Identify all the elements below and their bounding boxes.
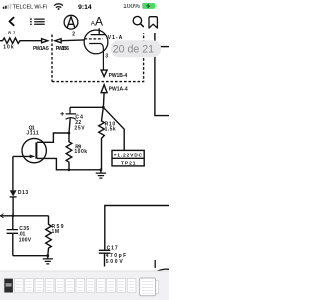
- svg-text:+1.22VDC: +1.22VDC: [114, 153, 143, 159]
- svg-text:25V: 25V: [74, 126, 85, 132]
- svg-text:20 de 21: 20 de 21: [113, 44, 154, 56]
- svg-text:500V: 500V: [106, 259, 124, 265]
- svg-text:10k: 10k: [3, 44, 14, 50]
- svg-text:PW1A-4: PW1A-4: [109, 86, 128, 92]
- svg-text:V1-A: V1-A: [108, 35, 123, 41]
- svg-text:A: A: [95, 14, 103, 28]
- svg-text:100V: 100V: [19, 238, 32, 244]
- svg-text:TP21: TP21: [121, 161, 136, 167]
- svg-text:1M: 1M: [52, 229, 60, 235]
- svg-text:PW1B-4: PW1B-4: [109, 73, 128, 79]
- svg-text:9:14: 9:14: [78, 4, 92, 11]
- svg-text:TELCEL Wi-Fi: TELCEL Wi-Fi: [13, 5, 48, 11]
- svg-text:PW1B-5: PW1B-5: [56, 46, 70, 52]
- svg-text:J111: J111: [26, 131, 39, 137]
- svg-text:D13: D13: [18, 190, 28, 196]
- svg-text:2: 2: [72, 31, 75, 37]
- svg-text:3: 3: [105, 53, 108, 59]
- svg-text:C17: C17: [107, 246, 118, 252]
- svg-text:100k: 100k: [74, 149, 87, 155]
- svg-text:PW1A-5: PW1A-5: [33, 46, 49, 52]
- svg-text:100%: 100%: [123, 4, 141, 10]
- svg-text:1.5k: 1.5k: [105, 127, 116, 133]
